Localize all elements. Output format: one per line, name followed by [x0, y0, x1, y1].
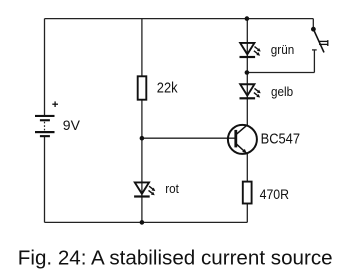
- wire switch feed: [312, 19, 314, 30]
- node between green and yellow LEDs: [245, 70, 250, 75]
- node top rail junction: [245, 16, 250, 21]
- svg-text:gelb: gelb: [271, 84, 293, 99]
- wire right top through green and yellow LEDs to collector: [246, 19, 248, 125]
- LED D1 gruen: [240, 43, 261, 57]
- resistor R2 470R: [243, 182, 252, 204]
- wire left lower: [44, 137, 46, 222]
- wire mid 22k through rot LED to bottom: [141, 99, 143, 222]
- wire 470R to bottom: [246, 203, 248, 222]
- node base junction: [140, 136, 145, 141]
- svg-text:22k: 22k: [157, 79, 178, 96]
- transistor Q1 BC547: [228, 125, 257, 154]
- svg-text:9V: 9V: [63, 117, 81, 133]
- wire top rail: [45, 18, 314, 20]
- switch S1: [311, 27, 328, 53]
- wire switch return horizontal: [247, 72, 315, 74]
- svg-text:470R: 470R: [260, 186, 289, 202]
- LED D2 gelb: [240, 84, 261, 98]
- wire switch lower contact stub: [312, 49, 317, 51]
- battery B1 9V: [35, 101, 58, 137]
- LED D3 rot: [134, 182, 155, 196]
- svg-text:rot: rot: [165, 182, 179, 197]
- wire emitter to 470R: [246, 154, 248, 182]
- wire mid top: [141, 19, 143, 77]
- svg-text:grün: grün: [271, 42, 295, 57]
- node bottom rail junction: [140, 220, 145, 225]
- wire left upper: [44, 19, 46, 116]
- svg-text:Fig. 24: A stabilised current: Fig. 24: A stabilised current source: [18, 246, 333, 269]
- svg-text:BC547: BC547: [261, 129, 301, 146]
- wire switch return vertical: [313, 50, 315, 73]
- wire bottom rail: [45, 221, 248, 223]
- wire base: [142, 137, 235, 139]
- resistor R1 22k: [138, 76, 147, 99]
